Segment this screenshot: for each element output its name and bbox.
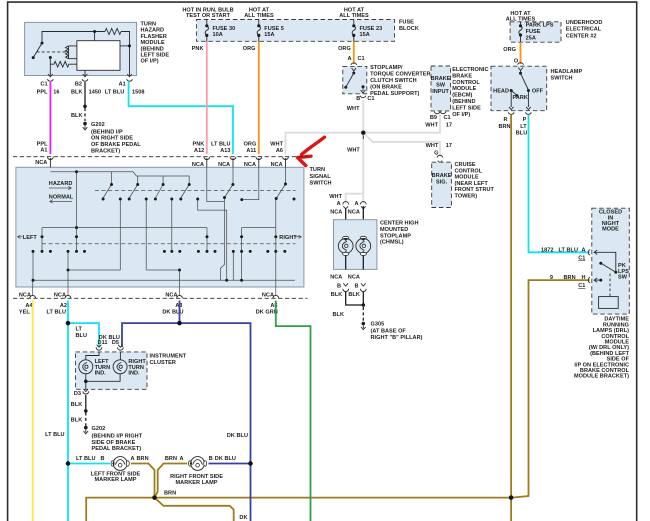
svg-text:OFF: OFF — [532, 89, 544, 95]
pin R — [508, 107, 514, 115]
svg-text:TURN: TURN — [141, 22, 157, 28]
svg-text:(NEAR LEFT: (NEAR LEFT — [455, 181, 489, 187]
svg-text:MOUNTED: MOUNTED — [380, 227, 408, 233]
A3 column — [179, 270, 181, 296]
svg-text:(BEHIND: (BEHIND — [452, 99, 475, 105]
svg-text:BRACKET): BRACKET) — [91, 148, 120, 154]
normal actuator dashed line — [42, 243, 296, 245]
svg-text:WHT: WHT — [329, 194, 342, 200]
label: DRL module text — [574, 317, 630, 380]
wire LT BLU 1508 (flasher A1 to switch A13) — [129, 82, 233, 154]
svg-text:SIDE OF BRAKE: SIDE OF BRAKE — [92, 440, 136, 446]
hazard arrow — [49, 186, 72, 189]
svg-text:IND.: IND. — [95, 370, 107, 376]
svg-text:DK: DK — [239, 515, 247, 521]
svg-text:C1: C1 — [40, 81, 47, 87]
svg-text:LT BLU: LT BLU — [211, 141, 231, 147]
svg-text:UNDERHOOD: UNDERHOOD — [566, 20, 603, 26]
switch contacts — [352, 72, 355, 75]
svg-text:MARKER LAMP: MARKER LAMP — [176, 480, 218, 486]
svg-text:NCA: NCA — [244, 162, 256, 168]
wire ORG (fuse to headlamp switch O) — [520, 42, 522, 64]
svg-text:1508: 1508 — [132, 90, 144, 96]
contact arms (hazard row) — [103, 185, 189, 199]
hazard feed rail from A1 — [50, 172, 189, 183]
svg-text:D11: D11 — [98, 340, 108, 346]
top pin A13 — [230, 157, 236, 168]
svg-text:A12: A12 — [194, 148, 204, 154]
svg-text:LEFT: LEFT — [23, 235, 38, 241]
label: EBCM — [452, 67, 488, 118]
wire BRN (junction left leg down) — [86, 498, 154, 521]
svg-text:(CHMSL): (CHMSL) — [380, 240, 404, 246]
svg-text:LEFT SIDE: LEFT SIDE — [452, 105, 481, 111]
wire ORG (fuse 23 to stoplamp switch) — [353, 42, 355, 65]
EBCM brake sw input (dashed box) — [431, 66, 451, 114]
pin B9 / C1 arcs — [434, 112, 446, 114]
svg-text:G202: G202 — [92, 426, 106, 432]
A6 feed + contact — [276, 167, 285, 198]
drop from terminal 172 — [171, 199, 173, 251]
svg-text:HEAD: HEAD — [493, 89, 509, 95]
ground G202 symbol — [83, 125, 88, 130]
switch interior junction dots — [32, 170, 296, 281]
label: G305 — [371, 322, 423, 342]
svg-text:CENTER HIGH: CENTER HIGH — [380, 221, 419, 227]
switch S1 — [41, 42, 44, 45]
svg-text:BRN: BRN — [165, 456, 177, 462]
drop from terminal 120 — [119, 199, 121, 270]
svg-text:NCA: NCA — [165, 292, 177, 298]
vertical from rail — [76, 172, 78, 252]
svg-text:H: H — [581, 275, 585, 281]
svg-text:NCA: NCA — [218, 162, 230, 168]
svg-text:STOPLAMP/: STOPLAMP/ — [370, 65, 403, 71]
svg-text:INSTRUMENT: INSTRUMENT — [150, 353, 187, 359]
svg-text:TURN: TURN — [310, 167, 326, 173]
wire WHT branch to EBCM — [363, 114, 440, 133]
svg-text:LT BLU: LT BLU — [45, 432, 65, 438]
right bus — [242, 228, 276, 281]
wire BLK (CHMSL B pins to G305) — [333, 292, 366, 330]
svg-text:ORG: ORG — [338, 46, 351, 52]
wire BRN (junction to lower-right run) — [155, 498, 234, 521]
svg-text:BLU: BLU — [516, 130, 528, 136]
labels: flasher pins — [37, 81, 145, 95]
svg-text:(AT BASE OF: (AT BASE OF — [371, 329, 407, 335]
svg-text:LT BLU: LT BLU — [47, 310, 67, 316]
wire DK BLU branch to cluster D5 — [122, 323, 251, 521]
svg-text:D3: D3 — [74, 391, 81, 397]
svg-text:NCA: NCA — [348, 274, 360, 280]
svg-text:R: R — [503, 117, 507, 123]
left stop bulb — [343, 236, 349, 239]
wire BLK 1450 to ground G202a — [71, 82, 87, 130]
svg-text:DK BLU: DK BLU — [227, 433, 248, 439]
svg-text:WHT: WHT — [270, 141, 283, 147]
svg-text:SWITCH: SWITCH — [551, 76, 573, 82]
rail stubs to contacts — [112, 172, 164, 183]
svg-text:WHT: WHT — [426, 143, 439, 149]
wire BRN (left lamp A to junction) — [131, 464, 155, 498]
svg-text:C1: C1 — [444, 115, 451, 121]
node BRN junction — [152, 495, 156, 499]
svg-text:PPL: PPL — [37, 90, 48, 96]
svg-text:NCA: NCA — [271, 162, 283, 168]
resistor R2 (lower) — [50, 61, 77, 67]
A4 pin stub — [32, 280, 34, 296]
svg-text:BLK: BLK — [331, 292, 343, 298]
node overlays — [152, 495, 156, 499]
svg-text:ON RIGHT SIDE: ON RIGHT SIDE — [91, 136, 133, 142]
pin A1 — [127, 74, 133, 81]
svg-text:PNK: PNK — [192, 46, 204, 52]
svg-text:CLUSTER: CLUSTER — [150, 360, 176, 366]
left arrow — [17, 235, 22, 238]
svg-text:(BEHIND I/P RIGHT: (BEHIND I/P RIGHT — [92, 434, 143, 440]
pin A (arc + arrow) — [588, 250, 598, 256]
svg-text:B: B — [100, 456, 104, 462]
svg-text:(BEHIND: (BEHIND — [141, 46, 164, 52]
svg-text:MARKER LAMP: MARKER LAMP — [95, 477, 137, 483]
svg-text:17: 17 — [446, 143, 452, 149]
svg-text:CRUISE: CRUISE — [455, 162, 476, 168]
svg-text:HEADLAMP: HEADLAMP — [551, 69, 583, 75]
svg-text:BLK: BLK — [333, 312, 345, 318]
wire WHT (junction to A6 input) — [286, 133, 364, 154]
svg-text:B2: B2 — [75, 81, 82, 87]
svg-text:PPL: PPL — [37, 141, 48, 147]
coil L1 — [66, 46, 69, 59]
switch interior wiring — [17, 167, 301, 296]
svg-text:BLK: BLK — [348, 292, 360, 298]
svg-text:ORG: ORG — [243, 46, 256, 52]
svg-text:INPUT: INPUT — [432, 89, 449, 95]
svg-text:TOWER): TOWER) — [455, 194, 478, 200]
svg-text:BLU: BLU — [76, 333, 88, 339]
top pin A1 — [48, 157, 54, 168]
CHMSL (box) — [334, 206, 377, 269]
svg-text:G202: G202 — [91, 122, 105, 128]
stoplamp / TCC switch (dashed box) — [343, 63, 367, 98]
svg-text:LEFT SIDE: LEFT SIDE — [141, 53, 170, 59]
labels: top input pins — [192, 141, 284, 168]
CHMSL pin arcs — [343, 202, 349, 209]
svg-text:MODULE BRACKET): MODULE BRACKET) — [574, 374, 629, 380]
svg-text:A13: A13 — [220, 148, 230, 154]
svg-text:17: 17 — [446, 122, 452, 128]
wire BRN (DRL H to bottom junction) — [512, 280, 590, 498]
svg-text:BLK: BLK — [71, 113, 83, 119]
svg-text:DK GRN: DK GRN — [256, 310, 278, 316]
svg-text:SWITCH: SWITCH — [310, 180, 332, 186]
svg-text:FRONT STRUT: FRONT STRUT — [455, 187, 495, 193]
label: G202 (lower) — [92, 426, 143, 452]
svg-text:A: A — [131, 456, 135, 462]
svg-text:B9: B9 — [430, 115, 437, 121]
svg-text:DK BLU: DK BLU — [215, 456, 236, 462]
svg-text:BLK: BLK — [71, 418, 83, 424]
svg-text:BLOCK: BLOCK — [399, 26, 419, 32]
svg-text:NCA: NCA — [348, 209, 360, 215]
junction node BRN — [509, 495, 513, 499]
svg-text:15A: 15A — [360, 32, 370, 38]
svg-text:A: A — [347, 56, 351, 62]
cruise control module (dashed box) — [432, 155, 452, 207]
svg-text:(ON BRAKE: (ON BRAKE — [370, 85, 402, 91]
wire DK GRN (A5 down right side) — [276, 301, 311, 521]
svg-text:A1: A1 — [40, 148, 47, 154]
wire PNK (fuse 30 to switch A12) — [206, 42, 208, 155]
svg-text:ALL TIMES: ALL TIMES — [339, 13, 369, 19]
resistor R (top) — [105, 29, 121, 35]
drop from terminal 146 — [145, 199, 147, 270]
svg-text:B: B — [209, 456, 213, 462]
wire DK BLU (right lamp B to vertical run) — [209, 463, 251, 465]
bottom pin A4 — [30, 295, 36, 298]
svg-text:ORG: ORG — [503, 47, 516, 53]
label: stoplamp switch — [370, 65, 430, 97]
svg-text:16: 16 — [53, 90, 59, 96]
svg-text:OF I/P): OF I/P) — [141, 59, 159, 65]
wire BRN (right lamp A to junction) — [155, 464, 188, 498]
svg-text:HAZARD: HAZARD — [141, 28, 165, 34]
svg-text:SIG.: SIG. — [436, 179, 448, 185]
svg-text:CENTER #2: CENTER #2 — [566, 33, 597, 39]
svg-text:PARK: PARK — [513, 95, 528, 101]
svg-text:B: B — [355, 283, 359, 289]
svg-text:A2: A2 — [60, 303, 67, 309]
svg-text:LT BLU: LT BLU — [105, 90, 125, 96]
svg-text:STOPLAMP: STOPLAMP — [380, 233, 411, 239]
svg-text:C1: C1 — [367, 96, 374, 102]
PK LPS SW switch — [599, 252, 616, 271]
dashed link to driver block — [609, 274, 611, 297]
svg-text:LT BLU: LT BLU — [559, 247, 579, 253]
instrument cluster (dashed box) — [76, 345, 148, 394]
svg-text:PNK: PNK — [192, 141, 204, 147]
drops to pins — [511, 92, 528, 107]
pin O arc — [518, 63, 524, 71]
wire DK BLU (A3 down) — [179, 301, 181, 324]
svg-text:RIGHT FRONT SIDE: RIGHT FRONT SIDE — [170, 474, 223, 480]
label: turn signal switch — [310, 167, 332, 186]
svg-text:9: 9 — [550, 275, 553, 281]
svg-text:A1: A1 — [119, 81, 126, 87]
top pin A6 — [283, 157, 289, 168]
labels: bottom output pins — [19, 292, 278, 315]
bulb return to D3 — [86, 374, 120, 390]
svg-text:WHT: WHT — [425, 122, 438, 128]
svg-text:BRN: BRN — [498, 124, 510, 130]
wire WHT branch to cruise module — [365, 134, 441, 156]
svg-text:B: B — [356, 96, 360, 102]
svg-text:NCA: NCA — [35, 160, 47, 166]
wire LT BLU to left marker lamp B — [68, 463, 110, 465]
left bus — [42, 228, 207, 252]
A11 link — [244, 167, 259, 199]
bulb returns — [346, 256, 364, 270]
drop from contact 224 — [221, 198, 225, 281]
DRL module (dashed box) — [588, 208, 629, 314]
label: G202 — [91, 122, 141, 155]
svg-text:OF I/P): OF I/P) — [452, 112, 470, 118]
headlamp switch (dashed box) — [491, 63, 547, 115]
wire WHT branch to left CHMSL pin — [346, 194, 364, 204]
svg-text:NCA: NCA — [19, 292, 31, 298]
svg-text:BRN: BRN — [564, 275, 576, 281]
A12 link — [207, 167, 225, 201]
node C1 feed — [49, 56, 52, 59]
turn signal switch outer dashed border — [13, 157, 308, 299]
svg-text:TORQUE CONVERTER: TORQUE CONVERTER — [370, 72, 430, 78]
svg-text:PARK LPS: PARK LPS — [526, 23, 554, 29]
svg-text:BLK: BLK — [71, 402, 83, 408]
wire LT BLU (headlamp P to DRL A) — [529, 115, 590, 252]
svg-text:A: A — [179, 456, 183, 462]
left turn indicator bulb — [86, 352, 99, 360]
pin A (arc) — [351, 63, 357, 71]
svg-text:IND.: IND. — [128, 370, 140, 376]
pin H (arc + arrow) — [588, 277, 598, 283]
svg-text:MODE: MODE — [602, 227, 619, 233]
svg-text:15A: 15A — [264, 32, 274, 38]
svg-text:HAZARD: HAZARD — [49, 181, 73, 187]
svg-text:BRN: BRN — [164, 490, 176, 496]
svg-text:D5: D5 — [112, 340, 119, 346]
fuse 23 15A — [352, 20, 382, 42]
svg-text:SW: SW — [618, 275, 628, 281]
svg-text:CONTROL: CONTROL — [455, 168, 483, 174]
label: flasher module name — [141, 22, 170, 65]
svg-text:TEST OR START: TEST OR START — [186, 13, 231, 19]
svg-text:ORG: ORG — [244, 141, 257, 147]
dashed actuator link — [37, 51, 67, 53]
pin P — [526, 107, 532, 115]
svg-text:NORMAL: NORMAL — [49, 195, 74, 201]
svg-text:BRAKE: BRAKE — [432, 173, 452, 179]
svg-text:(BEHIND I/P: (BEHIND I/P — [91, 129, 123, 135]
svg-text:25A: 25A — [526, 35, 536, 41]
wire BRN bottom bus (left to marker lamps) — [155, 497, 512, 499]
svg-text:MODULE: MODULE — [455, 175, 479, 181]
svg-text:1450: 1450 — [89, 90, 101, 96]
svg-text:MODULE: MODULE — [452, 86, 476, 92]
switch arm O to OFF — [520, 71, 522, 74]
driver block — [599, 297, 619, 309]
svg-text:NCA: NCA — [262, 292, 274, 298]
svg-text:NCA: NCA — [330, 274, 342, 280]
bottom pin A5 — [273, 295, 279, 298]
label: underhood electrical center — [566, 20, 603, 39]
svg-text:A: A — [354, 201, 358, 207]
svg-text:SW: SW — [436, 83, 446, 89]
red annotation arrow — [298, 137, 325, 165]
node: rail to relay box — [93, 30, 96, 33]
turn hazard flasher module (box) — [25, 22, 137, 81]
svg-text:PEDAL SUPPORT): PEDAL SUPPORT) — [370, 91, 419, 97]
label: CHMSL — [380, 221, 419, 246]
pin B2 — [82, 74, 88, 81]
pin C1 — [47, 74, 53, 81]
svg-text:RIGHT: RIGHT — [279, 235, 297, 241]
ground G202 symbol — [84, 429, 89, 433]
svg-text:A11: A11 — [246, 148, 256, 154]
wire LT BLU (A2 down) — [67, 301, 69, 521]
svg-text:A: A — [337, 201, 341, 207]
right front side marker lamp — [189, 457, 207, 471]
fuse 5 15A — [257, 20, 284, 42]
ground G305 symbol — [361, 325, 366, 329]
bottom pin A3 — [177, 295, 183, 298]
svg-text:B: B — [337, 283, 341, 289]
node on LT BLU — [66, 321, 70, 325]
hazard actuator dashed line — [95, 190, 296, 192]
svg-text:BRAKE: BRAKE — [431, 76, 451, 82]
drop from terminal 198 — [198, 199, 227, 280]
svg-text:FLASHER: FLASHER — [141, 34, 167, 40]
top pin A11 — [256, 157, 262, 168]
right arrow — [295, 235, 302, 238]
svg-text:LT BLU: LT BLU — [76, 456, 96, 462]
svg-text:RIGHT "B" PILLAR): RIGHT "B" PILLAR) — [371, 335, 423, 341]
svg-text:CONTROL: CONTROL — [452, 80, 480, 86]
svg-text:ALL TIMES: ALL TIMES — [244, 13, 274, 19]
underhood electrical center #2 / PARK LPS fuse (dashed box) — [510, 22, 561, 42]
junction node (WHT) — [361, 131, 365, 135]
svg-text:WHT: WHT — [347, 106, 360, 112]
svg-text:PEDAL BRACKET): PEDAL BRACKET) — [92, 446, 142, 452]
svg-text:ELECTRICAL: ELECTRICAL — [566, 27, 602, 33]
A13 feed + contact — [225, 167, 234, 197]
A5 column — [275, 199, 277, 296]
svg-text:C1: C1 — [578, 283, 585, 289]
svg-text:MODULE: MODULE — [141, 40, 165, 46]
wire YEL (A4 down) — [32, 301, 34, 521]
wire ORG (fuse 5 to switch A11) — [258, 42, 260, 155]
svg-text:BRAKE: BRAKE — [452, 73, 472, 79]
svg-text:OF BRAKE PEDAL: OF BRAKE PEDAL — [91, 142, 141, 148]
svg-text:BRN: BRN — [137, 456, 149, 462]
svg-text:P: P — [523, 117, 527, 123]
node DK BLU — [248, 461, 252, 465]
right turn indicator bulb — [119, 352, 121, 360]
svg-text:G305: G305 — [371, 322, 385, 328]
wire BLK (D3 to G202b) — [71, 391, 88, 434]
label: cruise control module — [455, 162, 495, 200]
svg-text:C1: C1 — [358, 56, 365, 62]
HEAD contact — [510, 89, 513, 92]
svg-text:FUSE: FUSE — [526, 29, 541, 35]
svg-text:YEL: YEL — [19, 310, 30, 316]
relay unit (inner box) — [77, 41, 120, 71]
svg-text:A: A — [581, 247, 585, 253]
svg-text:BLK: BLK — [71, 90, 83, 96]
bottom pin A2 — [65, 295, 71, 298]
bottom bus — [33, 279, 295, 281]
wire WHT (junction down to CHMSL) — [362, 133, 364, 204]
wire WHT (stoplamp B down to junction) — [362, 100, 364, 132]
A4 column — [32, 251, 34, 280]
svg-text:10A: 10A — [213, 32, 223, 38]
wire: flasher top rail with resistor — [42, 32, 130, 76]
svg-text:1872: 1872 — [541, 247, 553, 253]
svg-text:LT: LT — [520, 124, 527, 130]
svg-text:NCA: NCA — [54, 292, 66, 298]
svg-text:LT: LT — [76, 327, 83, 333]
svg-text:CLUTCH SWITCH: CLUTCH SWITCH — [370, 78, 417, 84]
svg-text:WHT: WHT — [347, 148, 360, 154]
